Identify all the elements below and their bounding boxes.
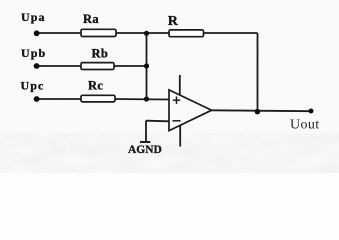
svg-text:Upc: Upc (21, 79, 45, 93)
svg-text:R: R (168, 14, 179, 29)
svg-text:Ra: Ra (83, 12, 99, 26)
svg-text:Upb: Upb (21, 46, 46, 60)
svg-text:Uout: Uout (290, 118, 320, 133)
svg-text:Rb: Rb (92, 47, 109, 61)
svg-text:AGND: AGND (128, 144, 162, 156)
svg-text:Upa: Upa (21, 10, 46, 24)
svg-text:Rc: Rc (88, 79, 103, 93)
